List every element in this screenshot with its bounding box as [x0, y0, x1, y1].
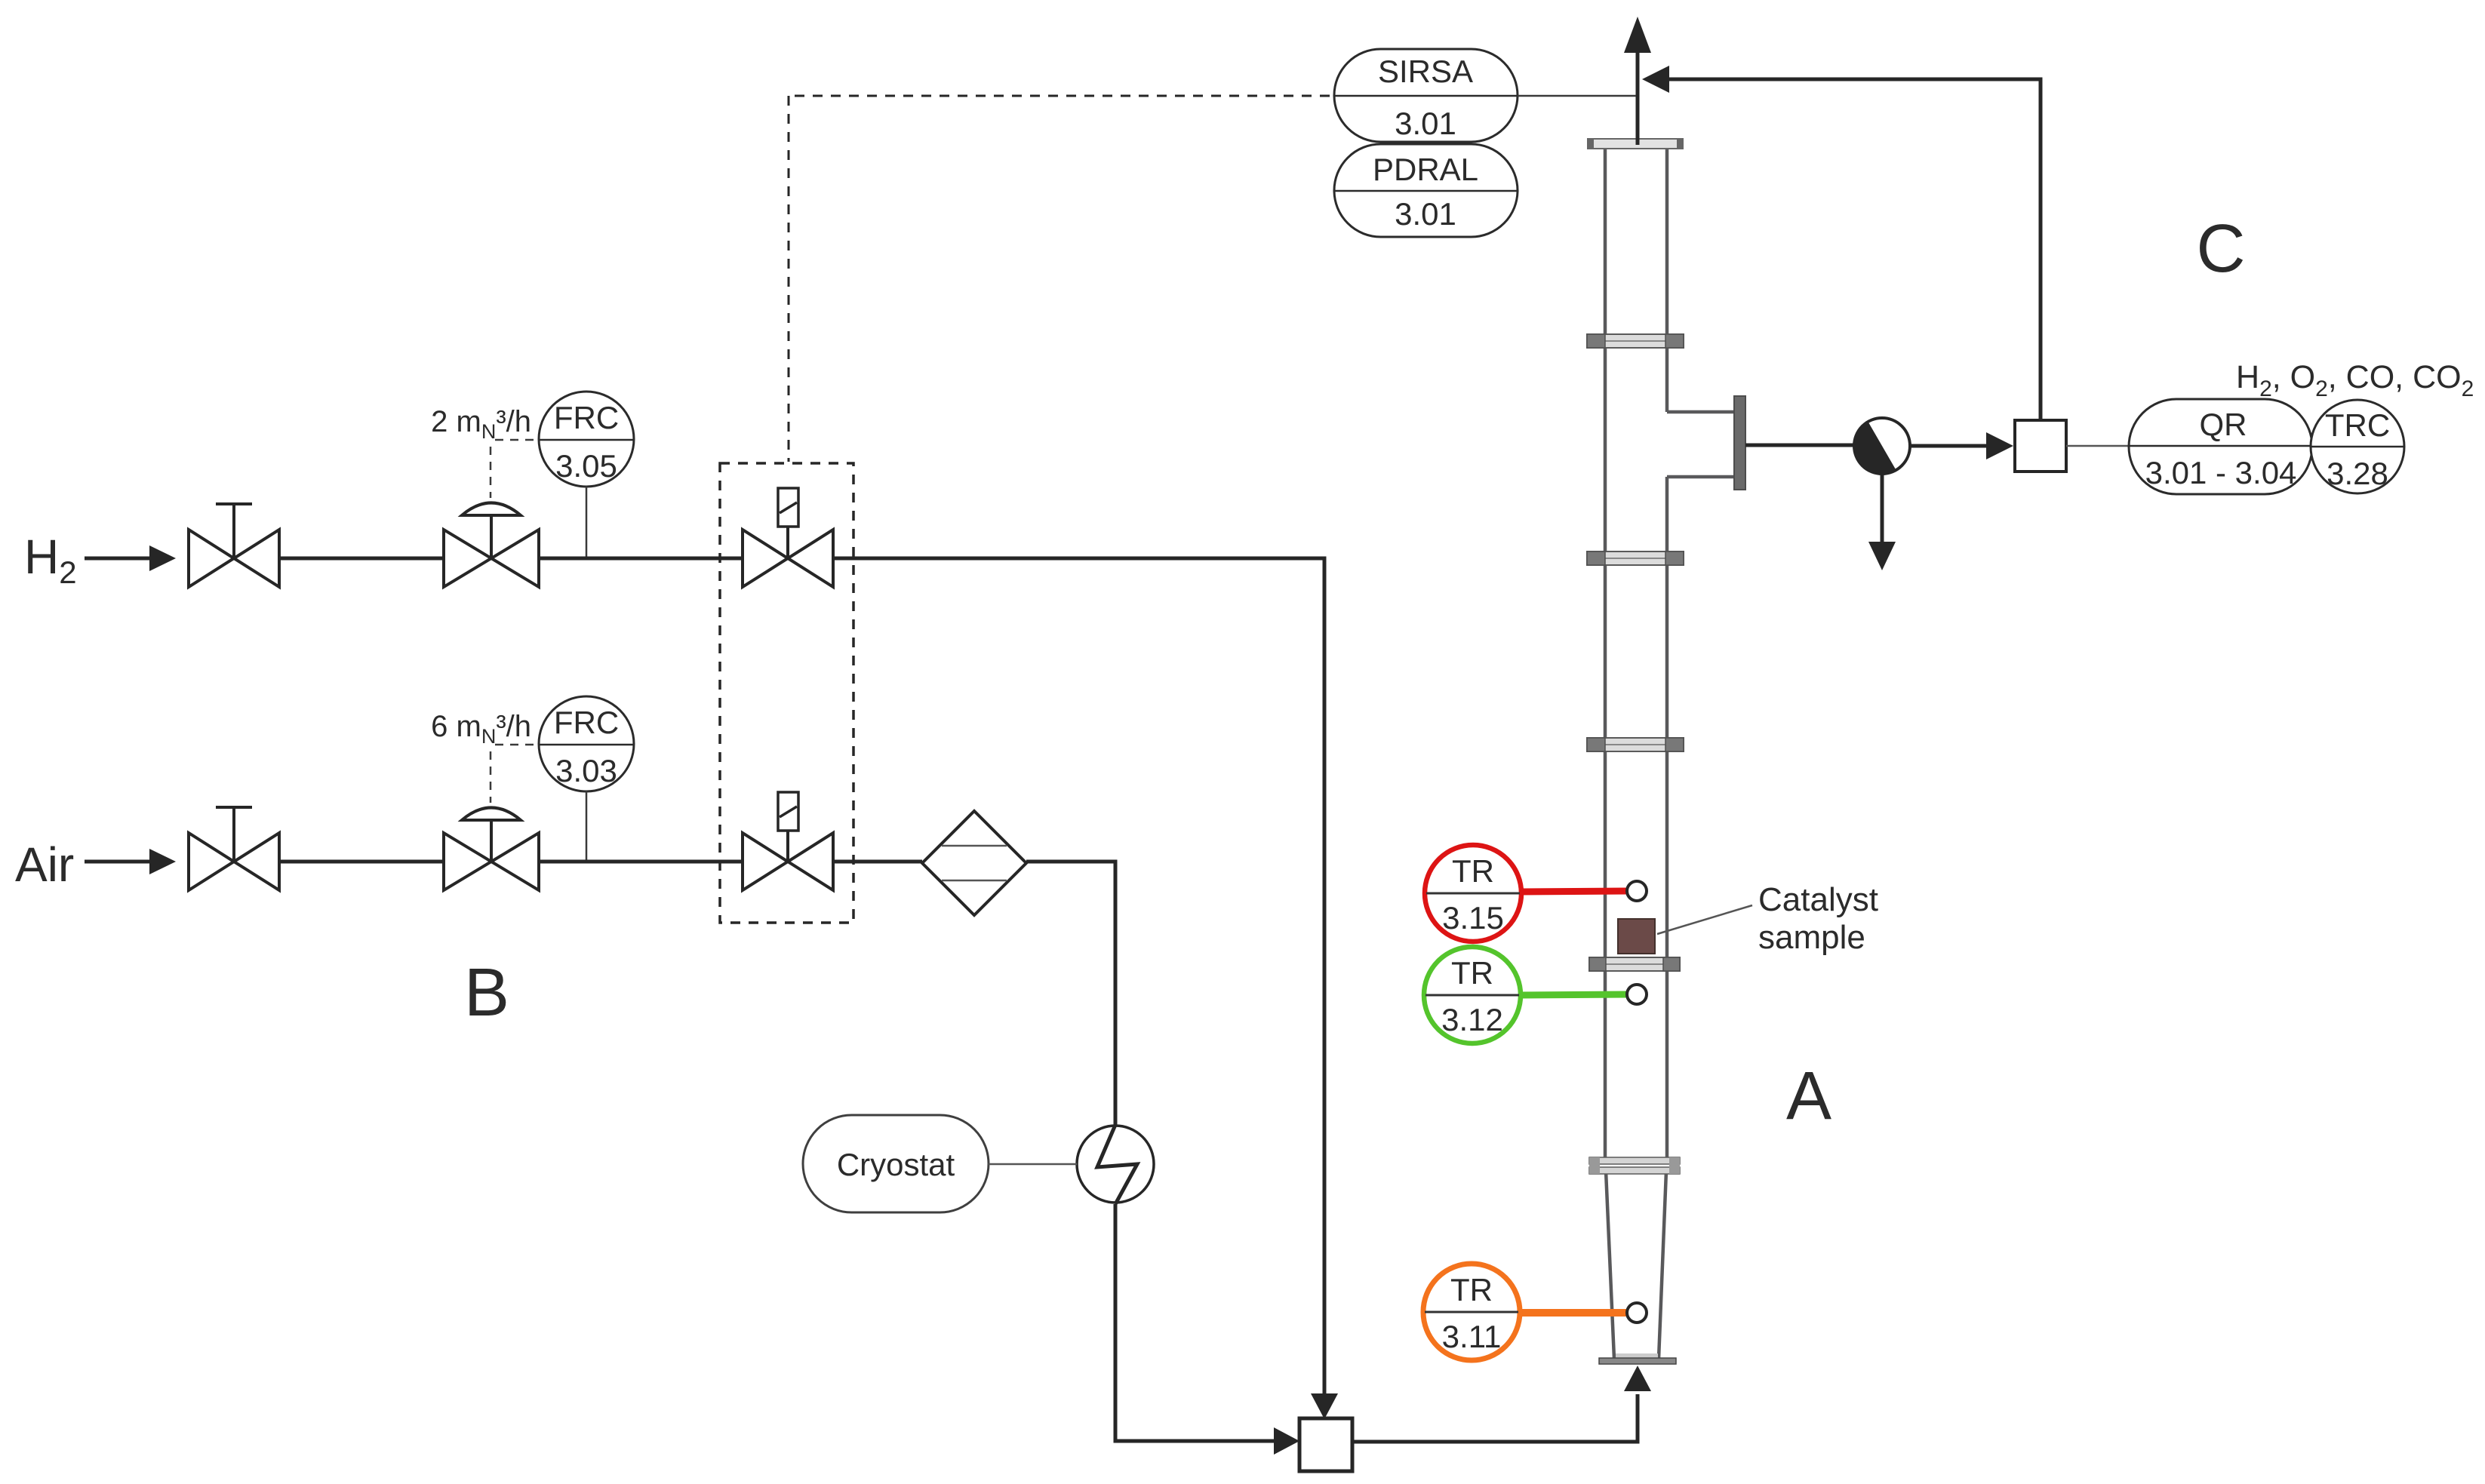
signal dashed to control valve Air — [491, 745, 537, 803]
reactor flange catalyst support — [1589, 957, 1680, 971]
svg-text:Cryostat: Cryostat — [837, 1147, 955, 1182]
wire vent arrow — [1624, 17, 1651, 145]
wire — [539, 860, 743, 864]
wire selector to QR — [2066, 445, 2129, 447]
svg-text:2 mN³/h: 2 mN³/h — [431, 405, 531, 443]
svg-text:3.12: 3.12 — [1441, 1002, 1503, 1037]
wire — [279, 557, 444, 561]
reactor taper left — [1606, 1171, 1614, 1359]
signal dashed SIRSA to solenoid enclosure — [789, 96, 1330, 462]
sample pump P1 — [1854, 418, 1910, 474]
svg-text:QR: QR — [2200, 407, 2247, 442]
wire pump drain arrow — [1868, 474, 1896, 570]
svg-text:A: A — [1786, 1058, 1831, 1134]
svg-text:TR: TR — [1452, 853, 1494, 889]
reactor tee branch — [1667, 396, 1745, 490]
reactor wall right upper — [1665, 146, 1669, 412]
wire Air inlet arrow — [85, 849, 176, 874]
svg-text:3.01 - 3.04: 3.01 - 3.04 — [2145, 455, 2297, 490]
svg-text:FRC: FRC — [554, 705, 619, 740]
label 6 mN3/h — [431, 710, 531, 748]
wire branch to pump — [1745, 444, 1856, 447]
instrument SIRSA 3.01 — [1334, 49, 1518, 142]
reactor wall right lower — [1665, 477, 1669, 1162]
svg-text:H2, O2, CO, CO2: H2, O2, CO, CO2 — [2236, 359, 2474, 401]
reactor double flange — [1589, 1157, 1680, 1174]
control valve Air — [444, 808, 539, 891]
svg-text:Catalyst: Catalyst — [1758, 881, 1878, 918]
wire — [833, 860, 922, 864]
node H2 label — [24, 530, 77, 590]
svg-text:3.28: 3.28 — [2327, 456, 2388, 491]
signal dashed to control valve H2 — [491, 440, 537, 498]
instrument TR 3.12 green — [1424, 947, 1628, 1043]
reactor top cap flange — [1587, 138, 1684, 149]
valve hand H2 — [189, 504, 279, 587]
port thermowell bottom — [1627, 1303, 1647, 1323]
label Catalyst sample — [1758, 881, 1878, 956]
selector box — [2015, 420, 2066, 472]
svg-text:sample: sample — [1758, 919, 1865, 956]
port thermowell top — [1627, 881, 1647, 901]
instrument TRC 3.28 — [2311, 400, 2404, 493]
wire SIRSA tap to vent line — [1518, 95, 1636, 97]
wire recycle return with arrow — [1642, 66, 2041, 93]
instrument TR 3.11 orange — [1423, 1264, 1628, 1360]
svg-text:3.11: 3.11 — [1442, 1319, 1502, 1354]
leader line catalyst label — [1657, 905, 1752, 934]
svg-text:TR: TR — [1450, 1272, 1493, 1307]
svg-text:FRC: FRC — [554, 400, 619, 435]
label 2 mN3/h — [431, 405, 531, 443]
svg-text:3.01: 3.01 — [1395, 196, 1456, 232]
instrument PDRAL 3.01 — [1334, 144, 1518, 237]
reactor base — [1599, 1353, 1676, 1364]
reactor flange 2 — [1587, 552, 1684, 565]
heat exchanger E1 — [1077, 1125, 1154, 1204]
svg-text:Air: Air — [15, 837, 74, 892]
control valve H2 — [444, 503, 539, 588]
wire mixer to reactor bottom — [1352, 1366, 1651, 1444]
wire pump to selector with arrow — [1910, 432, 2013, 459]
svg-text:3.01: 3.01 — [1395, 106, 1456, 141]
svg-text:3.03: 3.03 — [555, 753, 617, 788]
svg-text:B: B — [464, 955, 509, 1031]
dashed enclosure solenoid group — [720, 463, 853, 923]
wire H2 to mixer — [833, 557, 1338, 1420]
label Cryostat bubble — [803, 1115, 1077, 1212]
valve hand Air — [189, 807, 279, 890]
filter F1 — [922, 811, 1026, 915]
instrument FRC 3.05 — [539, 392, 634, 557]
svg-text:SIRSA: SIRSA — [1378, 54, 1473, 89]
instrument FRC 3.03 — [539, 696, 634, 860]
reactor wall left — [1604, 146, 1607, 1162]
solenoid valve H2 — [743, 488, 833, 587]
wire — [539, 557, 743, 561]
instrument TR 3.15 red — [1425, 845, 1628, 942]
svg-text:TRC: TRC — [2325, 407, 2390, 443]
reactor taper right — [1659, 1171, 1666, 1359]
wire filter to heat exchanger — [1026, 860, 1115, 1127]
svg-text:3.05: 3.05 — [555, 448, 617, 484]
svg-text:PDRAL: PDRAL — [1373, 152, 1478, 187]
wire H2 inlet arrow — [85, 545, 176, 571]
instrument QR 3.01-3.04 — [2129, 399, 2312, 494]
node Air label — [15, 837, 74, 892]
svg-text:TR: TR — [1451, 955, 1493, 991]
wire — [279, 860, 444, 864]
svg-text:6 mN³/h: 6 mN³/h — [431, 710, 531, 748]
port thermowell middle — [1627, 985, 1647, 1004]
mixer M1 — [1299, 1418, 1352, 1471]
label gases H2 O2 CO CO2 — [2236, 359, 2474, 401]
solenoid valve Air — [743, 792, 833, 890]
svg-text:3.15: 3.15 — [1442, 900, 1504, 936]
catalyst sample block — [1618, 919, 1655, 954]
wire selector recycle up — [2039, 78, 2043, 421]
wire heat exchanger to mixer — [1114, 1204, 1300, 1455]
reactor flange 3 — [1587, 738, 1684, 751]
reactor flange 1 — [1587, 334, 1684, 348]
svg-text:C: C — [2197, 211, 2246, 287]
